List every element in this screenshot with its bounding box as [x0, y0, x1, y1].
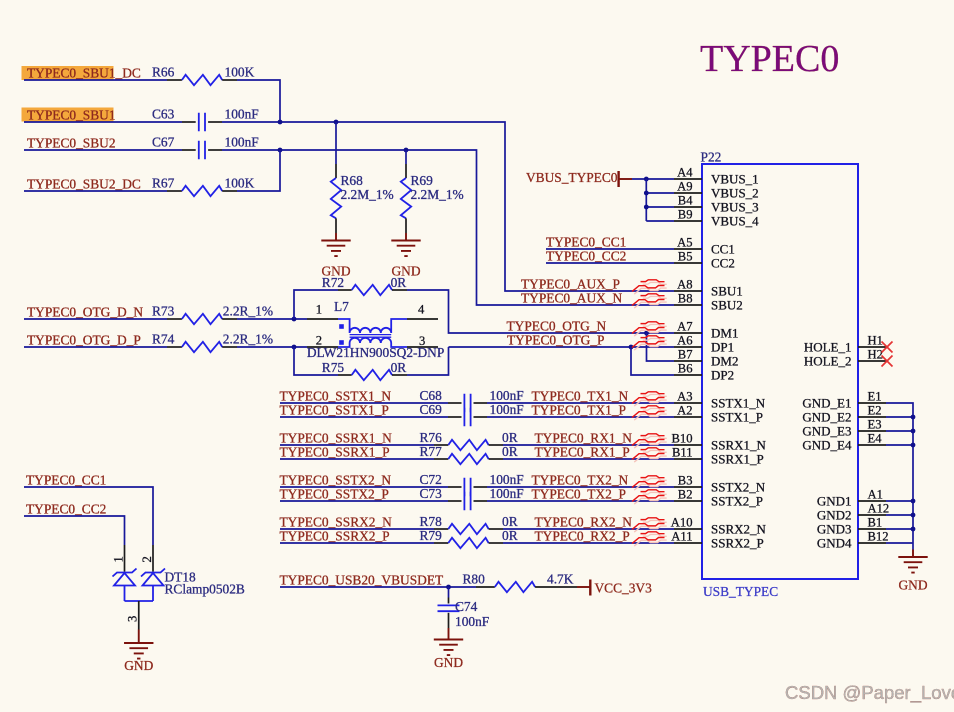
- svg-text:B7: B7: [678, 347, 693, 361]
- svg-text:RClamp0502B: RClamp0502B: [165, 582, 245, 597]
- svg-text:GND: GND: [434, 655, 463, 670]
- svg-text:VBUS_TYPEC0: VBUS_TYPEC0: [526, 170, 618, 185]
- wire TYPEC0_SBU1 to C63: [24, 121, 182, 123]
- svg-text:100K: 100K: [225, 176, 255, 191]
- svg-text:SSRX1_P: SSRX1_P: [711, 451, 764, 466]
- svg-text:R68: R68: [341, 173, 364, 188]
- pin A3 SSTX1_N: [674, 389, 766, 410]
- svg-text:R72: R72: [322, 275, 344, 290]
- resistor R69: [401, 164, 464, 233]
- junction VBUS A9: [644, 191, 649, 196]
- svg-text:100nF: 100nF: [490, 472, 524, 487]
- capacitor C67: [152, 135, 259, 160]
- differential pair directive: [632, 406, 667, 420]
- differential pair directive: [632, 490, 667, 504]
- wire R66 to SBU1 node: [237, 80, 280, 122]
- svg-text:R79: R79: [420, 528, 443, 543]
- pin B7 DM2: [674, 347, 738, 368]
- svg-text:L7: L7: [334, 299, 349, 314]
- svg-text:TYPEC0_TX2_N: TYPEC0_TX2_N: [532, 473, 629, 488]
- svg-text:0R: 0R: [502, 528, 518, 543]
- differential pair directive: [632, 392, 667, 406]
- svg-text:TYPEC0_OTG_D_N: TYPEC0_OTG_D_N: [27, 305, 143, 320]
- pin E4 GND_E4: [802, 431, 886, 452]
- pin A12 GND2: [817, 501, 889, 522]
- pin B11 SSRX1_P: [672, 445, 764, 466]
- svg-text:TYPEC0_TX1_P: TYPEC0_TX1_P: [532, 403, 627, 418]
- wire TYPEC0_USB20_VBUSDET to R80: [280, 586, 476, 588]
- svg-text:2.2R_1%: 2.2R_1%: [223, 304, 273, 319]
- svg-text:VBUS_4: VBUS_4: [711, 213, 759, 228]
- inductor L7 DLW21HN900SQ2-DNP: [307, 299, 444, 360]
- wire GND_E1 to bus: [886, 403, 913, 543]
- svg-text:TYPEC0_AUX_P: TYPEC0_AUX_P: [521, 277, 620, 292]
- svg-text:E4: E4: [868, 431, 883, 445]
- svg-text:SSTX1_N: SSTX1_N: [711, 395, 766, 410]
- svg-text:TYPEC0_SSRX2_N: TYPEC0_SSRX2_N: [280, 515, 393, 530]
- junction DP1/DP2: [629, 345, 634, 350]
- wire TYPEC0_SSRX1_N to R76: [280, 444, 434, 446]
- svg-text:TYPEC0_TX2_P: TYPEC0_TX2_P: [532, 487, 627, 502]
- wire TYPEC0_SBU1_DC to R66: [24, 79, 167, 81]
- svg-text:TYPEC0_SSRX2_P: TYPEC0_SSRX2_P: [280, 529, 390, 544]
- svg-text:TYPEC0_OTG_D_P: TYPEC0_OTG_D_P: [27, 333, 141, 348]
- wire net SBU2 to connector pin B8: [222, 150, 674, 305]
- pin B8 SBU2: [674, 291, 743, 312]
- wire TYPEC0_TX2_N to connector: [487, 486, 674, 488]
- wire TYPEC0_OTG_N to pin A7: [449, 319, 675, 333]
- svg-text:CSDN @Paper_Love: CSDN @Paper_Love: [785, 682, 954, 704]
- svg-text:SSTX2_N: SSTX2_N: [711, 479, 766, 494]
- resistor R67: [152, 176, 255, 197]
- wire TYPEC0_SSRX2_P to R79: [280, 542, 434, 544]
- svg-text:B1: B1: [868, 515, 883, 529]
- ground R69: [391, 233, 421, 279]
- svg-text:GND4: GND4: [817, 535, 852, 550]
- wire TYPEC0_CC2 to DT18 pin 1: [24, 516, 125, 545]
- pin B5 CC2: [674, 249, 735, 270]
- ground right GND bus: [898, 543, 928, 593]
- svg-text:B10: B10: [672, 431, 693, 445]
- svg-text:R80: R80: [463, 572, 486, 587]
- pin H1 HOLE_1: [804, 333, 886, 354]
- ground C74: [434, 628, 464, 670]
- pin E1 GND_E1: [802, 389, 886, 410]
- svg-text:TYPEC0_CC2: TYPEC0_CC2: [546, 249, 626, 264]
- svg-text:TYPEC0_OTG_N: TYPEC0_OTG_N: [507, 319, 607, 334]
- resistor R76: [420, 430, 518, 450]
- svg-text:TYPEC0: TYPEC0: [700, 38, 839, 80]
- pin A8 SBU1: [674, 277, 743, 298]
- pin E2 GND_E2: [802, 403, 886, 424]
- svg-text:2.2M_1%: 2.2M_1%: [411, 187, 464, 202]
- svg-text:A3: A3: [677, 389, 692, 403]
- svg-text:A9: A9: [677, 179, 692, 193]
- svg-text:TYPEC0_SSTX2_N: TYPEC0_SSTX2_N: [280, 473, 392, 488]
- resistor R72: [322, 275, 407, 295]
- differential pair directive: [632, 476, 667, 490]
- svg-text:CC2: CC2: [711, 255, 735, 270]
- differential pair directive: [632, 532, 667, 546]
- wire GND pin to bus: [886, 528, 913, 530]
- svg-text:C73: C73: [420, 486, 443, 501]
- svg-text:DP2: DP2: [711, 367, 734, 382]
- svg-text:GND1: GND1: [817, 493, 852, 508]
- wire net SBU1 to connector pin A8: [222, 122, 674, 291]
- pin B2 SSTX2_P: [674, 487, 763, 508]
- svg-text:C72: C72: [420, 472, 442, 487]
- svg-text:DM2: DM2: [711, 353, 738, 368]
- wire TYPEC0_OTG_D_P to R74: [24, 346, 167, 348]
- junction GND bus: [911, 499, 916, 504]
- svg-text:TYPEC0_OTG_P: TYPEC0_OTG_P: [507, 333, 604, 348]
- svg-text:TYPEC0_SBU2_DC: TYPEC0_SBU2_DC: [27, 177, 141, 192]
- svg-text:TYPEC0_AUX_N: TYPEC0_AUX_N: [521, 291, 623, 306]
- svg-text:CC1: CC1: [711, 241, 735, 256]
- svg-text:C67: C67: [152, 135, 175, 150]
- wire SBU1 to R68: [335, 122, 337, 164]
- wire TYPEC0_SSTX2_P to C73: [280, 500, 448, 502]
- pin A11 SSRX2_P: [671, 529, 763, 550]
- pin E3 GND_E3: [802, 417, 886, 438]
- svg-text:C69: C69: [420, 402, 443, 417]
- wire TYPEC0_SSTX1_P to C69: [280, 416, 448, 418]
- wire TYPEC0_RX2_P to connector: [503, 542, 674, 544]
- wire TYPEC0_SSTX1_N to C68: [280, 402, 448, 404]
- svg-text:0R: 0R: [502, 444, 518, 459]
- wire VBUS bus to pins A9 B4 B9: [646, 179, 674, 221]
- svg-text:A2: A2: [677, 403, 692, 417]
- svg-text:100nF: 100nF: [490, 402, 524, 417]
- capacitor C72: [420, 472, 524, 496]
- svg-text:TYPEC0_CC1: TYPEC0_CC1: [546, 235, 626, 250]
- ground DT18: [124, 630, 154, 674]
- differential pair directive: [632, 336, 667, 350]
- pin A2 SSTX1_P: [674, 403, 763, 424]
- no-ERC marker on HOLE_2: [882, 356, 893, 367]
- svg-text:USB_TYPEC: USB_TYPEC: [703, 584, 778, 599]
- svg-text:SSRX2_N: SSRX2_N: [711, 521, 767, 536]
- wire GND pin to bus: [886, 500, 913, 502]
- svg-text:GND3: GND3: [817, 521, 852, 536]
- capacitor C73: [420, 486, 524, 510]
- differential pair directive: [632, 518, 667, 532]
- svg-text:SBU1: SBU1: [711, 283, 743, 298]
- wire TYPEC0_SSRX2_N to R78: [280, 528, 434, 530]
- svg-text:GND_E4: GND_E4: [802, 437, 852, 452]
- svg-text:HOLE_2: HOLE_2: [804, 353, 852, 368]
- junction GND bus: [911, 527, 916, 532]
- svg-text:R66: R66: [152, 65, 175, 80]
- differential pair directive: [632, 322, 667, 336]
- svg-text:H2: H2: [868, 347, 883, 361]
- junction DM1/DM2: [644, 331, 649, 336]
- junction SBU1/R68: [334, 120, 339, 125]
- wire R74 to L7 pin 2: [237, 346, 307, 348]
- wire R73 to L7 pin 1: [237, 318, 307, 320]
- capacitor C69: [420, 402, 524, 426]
- svg-text:TYPEC0_RX1_P: TYPEC0_RX1_P: [535, 445, 630, 460]
- svg-text:TYPEC0_SSTX1_P: TYPEC0_SSTX1_P: [280, 403, 389, 418]
- power port VCC_3V3: [577, 580, 652, 596]
- wire TYPEC0_RX1_N to connector: [503, 444, 674, 446]
- svg-text:SSTX1_P: SSTX1_P: [711, 409, 763, 424]
- svg-text:R69: R69: [411, 173, 434, 188]
- resistor R74: [152, 332, 273, 353]
- pin H2 HOLE_2: [804, 347, 886, 368]
- svg-text:B12: B12: [868, 529, 889, 543]
- svg-text:100nF: 100nF: [490, 486, 524, 501]
- net label TYPEC0_SBU1 (highlighted): [22, 108, 116, 123]
- net label TYPEC0_SBU1_DC (highlighted): [22, 66, 141, 81]
- svg-text:R74: R74: [152, 332, 175, 347]
- svg-text:3: 3: [419, 334, 425, 348]
- svg-text:GND: GND: [898, 578, 927, 593]
- junction GND bus: [911, 513, 916, 518]
- junction SBU1/R66: [278, 120, 283, 125]
- junction GND bus: [911, 429, 916, 434]
- wire TYPEC0_CC1 to DT18 pin 2: [24, 487, 153, 545]
- svg-text:TYPEC0_SBU2: TYPEC0_SBU2: [27, 136, 116, 151]
- svg-text:100K: 100K: [225, 65, 255, 80]
- wire TYPEC0_SBU2 to C67: [24, 149, 182, 151]
- svg-text:VBUS_3: VBUS_3: [711, 199, 759, 214]
- svg-text:B3: B3: [678, 473, 693, 487]
- svg-text:TYPEC0_TX1_N: TYPEC0_TX1_N: [532, 389, 629, 404]
- svg-text:SSRX2_P: SSRX2_P: [711, 535, 764, 550]
- svg-text:TYPEC0_SSRX1_N: TYPEC0_SSRX1_N: [280, 431, 393, 446]
- wire VBUS to pin A4: [632, 178, 674, 180]
- wire VBUSDET to C74: [448, 587, 450, 598]
- wire R72 loop left: [294, 290, 338, 319]
- junction GND bus: [911, 415, 916, 420]
- pin A6 DP1: [674, 333, 734, 354]
- wire R75 loop right: [407, 347, 449, 375]
- differential pair directive: [632, 448, 667, 462]
- differential pair directive: [632, 434, 667, 448]
- power port VBUS_TYPEC0: [526, 170, 632, 187]
- svg-text:TYPEC0_RX2_P: TYPEC0_RX2_P: [535, 529, 630, 544]
- svg-text:TYPEC0_RX2_N: TYPEC0_RX2_N: [535, 515, 633, 530]
- svg-text:HOLE_1: HOLE_1: [804, 339, 852, 354]
- wire GND pin to bus: [886, 444, 913, 446]
- pin A4 VBUS_1: [674, 165, 759, 186]
- svg-text:0R: 0R: [391, 275, 407, 290]
- pin A9 VBUS_2: [674, 179, 759, 200]
- pin B10 SSRX1_N: [672, 431, 767, 452]
- wire R75 loop left: [294, 347, 338, 375]
- pin A1 GND1: [817, 487, 886, 508]
- svg-text:TYPEC0_SBU1: TYPEC0_SBU1: [27, 108, 116, 123]
- svg-text:TYPEC0_SSTX1_N: TYPEC0_SSTX1_N: [280, 389, 392, 404]
- junction OTG_D_P / R75 loop: [292, 345, 297, 350]
- svg-text:GND_E3: GND_E3: [802, 423, 851, 438]
- svg-text:C74: C74: [455, 599, 478, 614]
- junction SBU2/R69: [404, 148, 409, 153]
- pin B3 SSTX2_N: [674, 473, 766, 494]
- capacitor C63: [152, 107, 259, 132]
- svg-text:TYPEC0_SSRX1_P: TYPEC0_SSRX1_P: [280, 445, 390, 460]
- svg-text:4.7K: 4.7K: [547, 572, 574, 587]
- wire TYPEC0_RX2_N to connector: [503, 528, 674, 530]
- svg-text:TYPEC0_CC2: TYPEC0_CC2: [26, 502, 106, 517]
- ground R68: [321, 233, 351, 279]
- svg-text:B2: B2: [678, 487, 693, 501]
- svg-text:TYPEC0_USB20_VBUSDET: TYPEC0_USB20_VBUSDET: [280, 573, 444, 588]
- pin A7 DM1: [674, 319, 738, 340]
- wire TYPEC0_SSTX2_N to C72: [280, 486, 448, 488]
- svg-text:R75: R75: [322, 360, 345, 375]
- connector P22 USB_TYPEC body: [701, 150, 859, 600]
- resistor R75: [322, 360, 407, 380]
- svg-text:A10: A10: [671, 515, 693, 529]
- svg-text:TYPEC0_SBU1_DC: TYPEC0_SBU1_DC: [27, 66, 141, 81]
- svg-text:2.2R_1%: 2.2R_1%: [223, 332, 273, 347]
- svg-text:A11: A11: [671, 529, 692, 543]
- svg-text:DP1: DP1: [711, 339, 734, 354]
- svg-text:B6: B6: [678, 361, 693, 375]
- junction VBUS B4: [644, 205, 649, 210]
- svg-text:0R: 0R: [502, 514, 518, 529]
- wire DM2 branch to pin B7: [647, 333, 675, 361]
- wire TYPEC0_OTG_D_N to R73: [24, 318, 167, 320]
- wire TYPEC0_CC1 to pin A5: [546, 248, 674, 250]
- junction VBUS A4: [644, 177, 649, 182]
- svg-text:A8: A8: [677, 277, 692, 291]
- resistor R77: [420, 444, 518, 464]
- junction GND bus: [911, 443, 916, 448]
- svg-text:2.2M_1%: 2.2M_1%: [341, 187, 394, 202]
- svg-text:A5: A5: [677, 235, 692, 249]
- pin B1 GND3: [817, 515, 886, 536]
- pin A10 SSRX2_N: [671, 515, 767, 536]
- svg-text:1: 1: [112, 556, 126, 562]
- resistor R66: [152, 65, 255, 86]
- svg-text:C63: C63: [152, 107, 175, 122]
- capacitor C68: [420, 388, 524, 412]
- svg-text:TYPEC0_RX1_N: TYPEC0_RX1_N: [535, 431, 633, 446]
- no-ERC marker on HOLE_1: [882, 342, 893, 353]
- resistor R73: [152, 304, 273, 325]
- wire GND pin to bus: [886, 430, 913, 432]
- svg-text:0R: 0R: [391, 360, 407, 375]
- svg-text:R73: R73: [152, 304, 175, 319]
- svg-text:SSTX2_P: SSTX2_P: [711, 493, 763, 508]
- svg-text:E1: E1: [868, 389, 882, 403]
- junction VBUSDET / C74: [446, 585, 451, 590]
- svg-text:GND_E2: GND_E2: [802, 409, 851, 424]
- pin A5 CC1: [674, 235, 735, 256]
- wire TYPEC0_TX1_P to connector: [487, 416, 674, 418]
- wire TYPEC0_SSRX1_P to R77: [280, 458, 434, 460]
- svg-text:B11: B11: [672, 445, 693, 459]
- resistor R79: [420, 528, 518, 548]
- svg-text:100nF: 100nF: [490, 388, 524, 403]
- wire GND pin to bus: [886, 416, 913, 418]
- svg-text:B4: B4: [678, 193, 693, 207]
- svg-text:2: 2: [316, 334, 322, 348]
- svg-text:R67: R67: [152, 176, 175, 191]
- svg-text:4: 4: [418, 303, 425, 317]
- svg-text:100nF: 100nF: [225, 135, 259, 150]
- wire GND4 B12 to bus: [886, 542, 913, 544]
- TVS diode DT18 RClamp0502B: [112, 545, 245, 630]
- wire GND pin to bus: [886, 514, 913, 516]
- svg-text:A1: A1: [868, 487, 883, 501]
- svg-text:DM1: DM1: [711, 325, 738, 340]
- svg-text:SBU2: SBU2: [711, 297, 743, 312]
- wire TYPEC0_RX1_P to connector: [503, 458, 674, 460]
- svg-text:100nF: 100nF: [455, 614, 489, 629]
- resistor R80: [463, 572, 578, 593]
- junction OTG_D_N / R72 loop: [292, 317, 297, 322]
- wire SBU2 to R69: [405, 150, 407, 164]
- svg-text:H1: H1: [868, 333, 883, 347]
- svg-text:E3: E3: [868, 417, 882, 431]
- svg-text:3: 3: [126, 616, 140, 622]
- svg-text:A12: A12: [868, 501, 890, 515]
- svg-text:100nF: 100nF: [225, 107, 259, 122]
- svg-text:R78: R78: [420, 514, 443, 529]
- pin B12 GND4: [817, 529, 889, 550]
- svg-text:TYPEC0_SSTX2_P: TYPEC0_SSTX2_P: [280, 487, 389, 502]
- svg-text:TYPEC0_CC1: TYPEC0_CC1: [26, 473, 106, 488]
- svg-text:B5: B5: [678, 249, 693, 263]
- svg-text:B9: B9: [678, 207, 693, 221]
- capacitor C74: [438, 598, 490, 630]
- svg-text:P22: P22: [701, 150, 722, 165]
- svg-text:0R: 0R: [502, 430, 518, 445]
- svg-text:SSRX1_N: SSRX1_N: [711, 437, 767, 452]
- wire DP2 branch to pin B6: [631, 347, 674, 375]
- svg-text:A4: A4: [677, 165, 693, 179]
- svg-text:A7: A7: [677, 319, 692, 333]
- wire TYPEC0_SBU2_DC to R67: [24, 190, 167, 192]
- wire R67 to SBU2 node: [237, 150, 280, 191]
- junction SBU2/R67: [278, 148, 283, 153]
- pin B6 DP2: [674, 361, 734, 382]
- svg-text:B8: B8: [678, 291, 693, 305]
- svg-text:GND2: GND2: [817, 507, 852, 522]
- svg-text:R77: R77: [420, 444, 443, 459]
- svg-text:VBUS_2: VBUS_2: [711, 185, 759, 200]
- resistor R78: [420, 514, 518, 534]
- svg-text:2: 2: [140, 556, 154, 562]
- differential pair directive: [632, 294, 667, 308]
- svg-text:VBUS_1: VBUS_1: [711, 171, 759, 186]
- wire TYPEC0_TX1_N to connector: [487, 402, 674, 404]
- svg-text:GND_E1: GND_E1: [802, 395, 851, 410]
- wire R72 loop right: [407, 290, 449, 319]
- svg-text:R76: R76: [420, 430, 443, 445]
- svg-text:GND: GND: [124, 658, 153, 673]
- wire TYPEC0_OTG_P to pin A6: [449, 346, 675, 348]
- wire TYPEC0_CC2 to pin B5: [546, 262, 674, 264]
- resistor R68: [331, 164, 394, 233]
- svg-text:VCC_3V3: VCC_3V3: [595, 581, 653, 596]
- svg-text:A6: A6: [677, 333, 692, 347]
- svg-text:E2: E2: [868, 403, 882, 417]
- pin B9 VBUS_4: [674, 207, 759, 228]
- svg-text:1: 1: [316, 303, 322, 317]
- wire TYPEC0_TX2_P to connector: [487, 500, 674, 502]
- svg-text:C68: C68: [420, 388, 443, 403]
- differential pair directive: [632, 280, 667, 294]
- pin B4 VBUS_3: [674, 193, 759, 214]
